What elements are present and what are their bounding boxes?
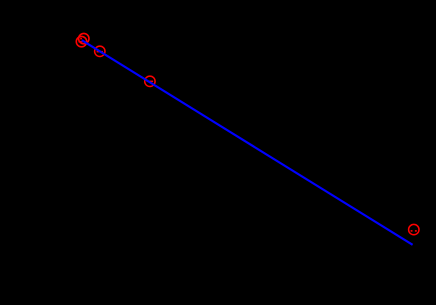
data point marker M5 [409,224,419,234]
fitted regression line [82,40,413,245]
data point marker M3 [95,46,105,56]
data point marker M1 (cluster lower-left ring) [76,36,86,46]
data point marker M2 (cluster upper-right ring) [79,33,89,43]
data point marker M4 [145,76,155,86]
